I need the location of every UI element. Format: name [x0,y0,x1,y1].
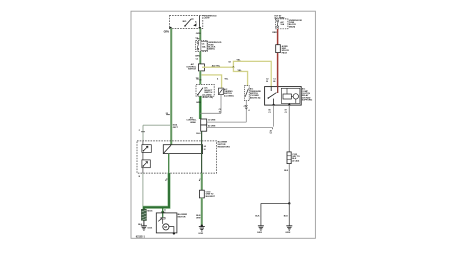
relay K2 A/C compressor clutch relay [265,87,302,106]
svg-text:15A: 15A [202,46,206,49]
blower resistor box [137,141,217,173]
svg-text:BLK/WHT: BLK/WHT [206,196,216,198]
svg-text:MOTOR: MOTOR [178,217,186,219]
svg-text:9213G-1: 9213G-1 [136,236,146,239]
wire thick green elbow [144,154,169,210]
label underhood light [203,15,217,19]
hot at all times label [274,14,285,19]
wire yellow A [202,59,271,86]
svg-text:A22 YEL: A22 YEL [212,65,221,68]
svg-text:(MAXI): (MAXI) [208,48,215,51]
wire thin left down [142,173,144,206]
connector C201 [186,63,204,71]
wire center green thick [196,96,201,119]
wire green to ground [196,198,202,226]
underhood light box U1 [169,16,202,29]
svg-text:GRN: GRN [164,31,169,34]
label fuse block 2 [289,20,303,29]
wire orn 1 [207,120,247,123]
pin labels above relay [266,79,277,83]
blower motor M1 [156,213,187,235]
wire inside left [142,141,144,173]
svg-text:BLK: BLK [284,170,289,172]
svg-text:ABOVE 30): ABOVE 30) [250,96,261,99]
wire relay left pin [268,105,273,127]
wire yellow C [202,75,229,88]
ground G200 [257,226,264,234]
svg-text:RED: RED [272,32,277,34]
wire ground bus [255,202,290,225]
svg-text:10 ORN: 10 ORN [208,120,216,122]
wire blk to ground [138,221,144,227]
svg-text:LIGHT: LIGHT [204,18,211,20]
svg-text:(CLOSED): (CLOSED) [224,95,234,97]
pressure switch S4 box C [244,86,261,101]
label resistor [218,142,231,149]
svg-text:W/ A/C ON): W/ A/C ON) [202,96,213,99]
svg-text:RESISTORS: RESISTORS [218,146,231,148]
svg-text:HEAD: HEAD [190,121,196,124]
svg-text:GRN: GRN [196,33,201,35]
svg-text:(2 CAV): (2 CAV) [292,159,299,162]
svg-text:BLK: BLK [284,215,289,217]
switch S1 [183,19,194,27]
node left [169,27,171,29]
node motor tap [161,211,164,214]
svg-text:GRN: GRN [196,102,201,104]
lamp L1 [193,16,199,27]
fuse F2 underhood [275,19,288,29]
label fuse block [208,42,222,50]
wire yellow B [233,67,247,85]
svg-text:YEL: YEL [236,59,241,61]
svg-text:JNCT: JNCT [173,127,179,129]
ground G101 [141,226,153,230]
svg-text:10A: 10A [280,23,284,26]
fuse F1 [196,40,208,51]
switch S3 box B [219,88,234,98]
wire to head [200,112,221,114]
ground G103 [198,225,205,236]
svg-text:42 ORN: 42 ORN [208,124,216,127]
wire orn 2 [207,124,273,134]
wire center green 2 [195,51,200,64]
stub box C [244,101,251,123]
svg-text:BLU: BLU [196,133,201,135]
connector C102 [200,190,216,198]
connector C125 [284,152,300,172]
wire center green in box [201,131,203,173]
svg-text:YEL: YEL [237,70,242,72]
connector stack C2 [186,116,206,135]
thermal limiter 2 [142,160,150,168]
stub box B [219,95,222,114]
ground G202 [285,226,292,234]
hatched connector M105 [141,209,153,220]
resistor R1 [163,145,206,154]
node relay pins [273,104,275,106]
border frame [131,11,315,238]
svg-text:GRN: GRN [195,56,200,58]
wire gray relay right pin [285,105,290,203]
wire center green lower [201,173,203,190]
svg-text:SUPPORT): SUPPORT) [302,100,313,102]
svg-text:BLK: BLK [255,215,260,217]
connector C3 on red [276,45,290,55]
svg-text:(MAXI): (MAXI) [289,25,296,28]
wire center green top [195,28,201,40]
svg-text:SWITCH: SWITCH [188,69,196,71]
exit ticks below box [139,176,202,182]
wire motor tap [163,207,167,217]
label relay [302,88,313,102]
wire left green [164,28,179,144]
thermal limiter 1 [142,145,151,153]
wire branch to left chain [139,125,171,141]
relay K1 box A [196,84,214,98]
wire center green 3 [196,71,202,85]
wire red [272,29,277,87]
svg-text:PACK: PACK [282,51,288,54]
node right [199,27,201,29]
